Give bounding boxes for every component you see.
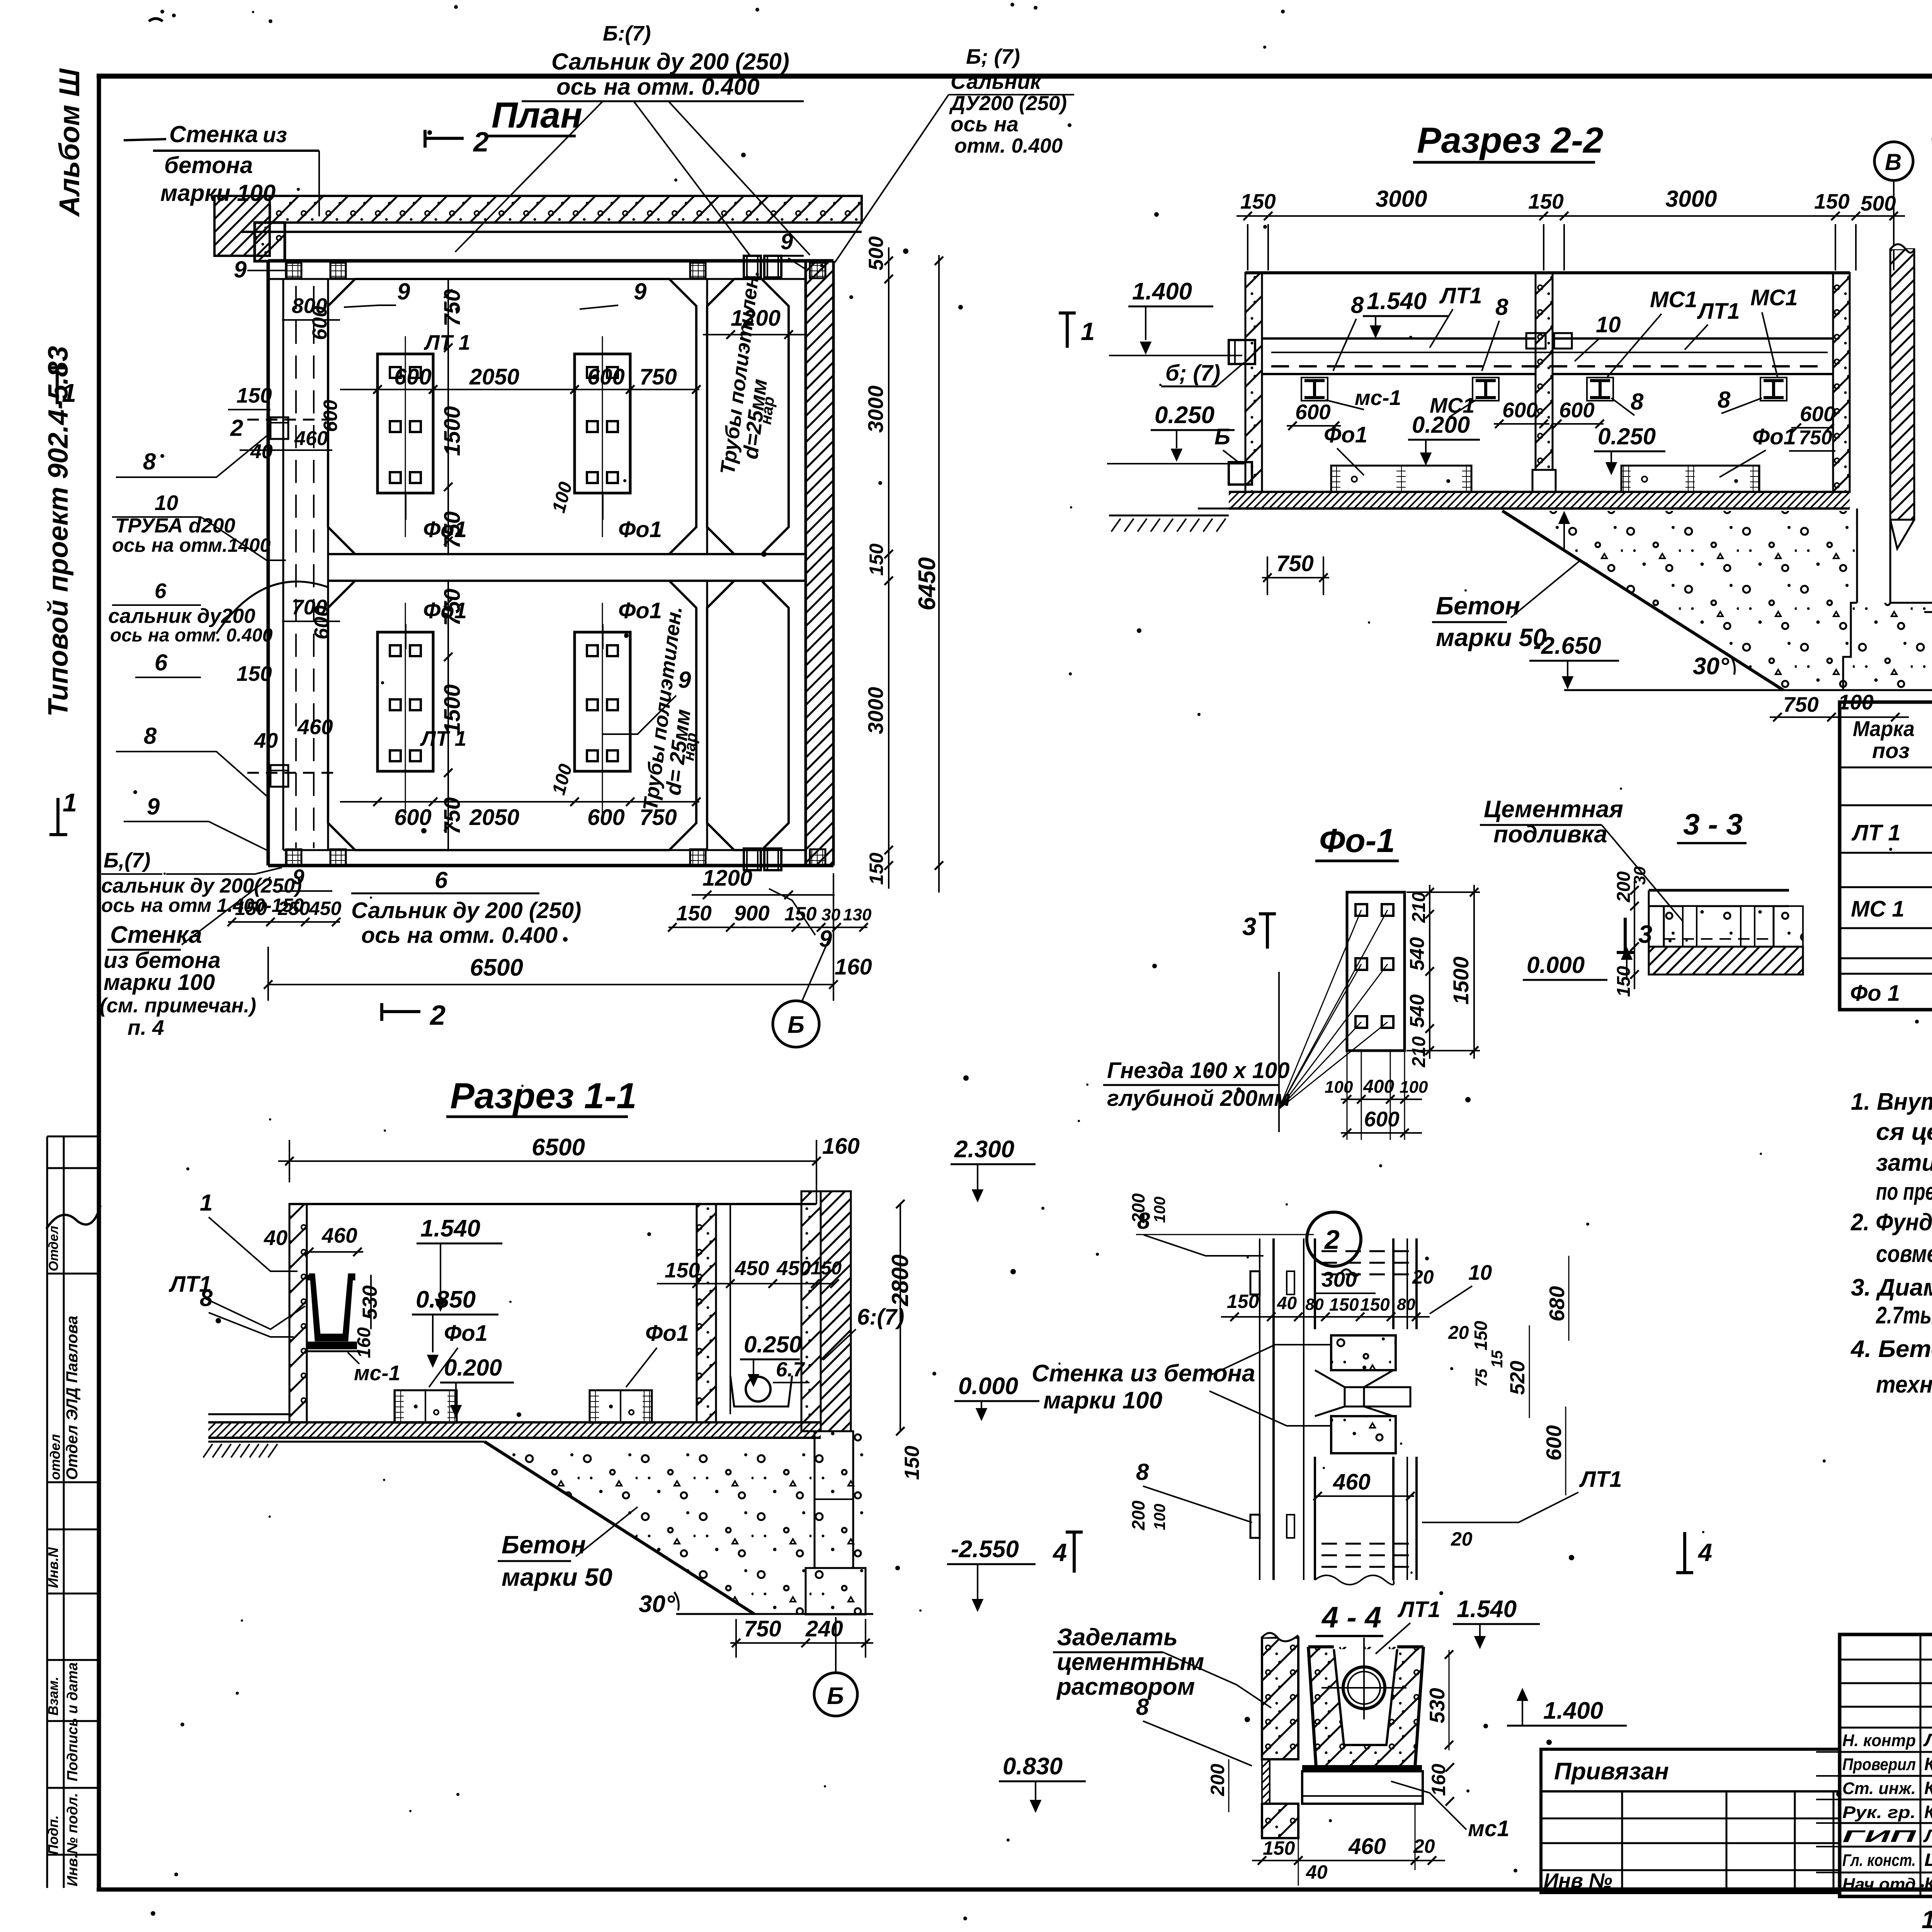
svg-text:марки 100: марки 100	[1043, 1387, 1162, 1414]
svg-text:Стенка: Стенка	[110, 922, 202, 948]
svg-text:460: 460	[1333, 1469, 1371, 1495]
svg-text:марки 50: марки 50	[1436, 623, 1547, 651]
svg-text:6: 6	[155, 650, 168, 675]
svg-text:0.000: 0.000	[1527, 952, 1585, 978]
svg-text:1500: 1500	[440, 406, 465, 456]
svg-text:6:(7): 6:(7)	[857, 1304, 904, 1330]
svg-text:600: 600	[308, 306, 331, 340]
svg-text:Фо1: Фо1	[1752, 424, 1796, 449]
svg-text:раствором: раствором	[1056, 1673, 1195, 1700]
svg-text:-2.650: -2.650	[1533, 633, 1601, 659]
svg-text:нар: нар	[679, 731, 701, 762]
svg-text:0.250: 0.250	[744, 1332, 802, 1357]
svg-text:1: 1	[1081, 317, 1095, 345]
svg-text:400: 400	[1363, 1077, 1394, 1097]
svg-text:200: 200	[1128, 1500, 1148, 1531]
svg-text:100: 100	[1151, 1503, 1168, 1530]
svg-text:Фо-1: Фо-1	[1319, 822, 1395, 859]
svg-text:150: 150	[866, 852, 887, 885]
svg-text:10: 10	[1468, 1260, 1492, 1284]
svg-text:9: 9	[293, 865, 304, 889]
svg-text:Б,(7): Б,(7)	[104, 848, 150, 872]
svg-text:марки 100: марки 100	[104, 970, 215, 995]
svg-text:Подпись и дата: Подпись и дата	[65, 1662, 81, 1781]
svg-text:ось на отм. 0.400: ось на отм. 0.400	[110, 625, 273, 646]
svg-text:Фо1: Фо1	[444, 1321, 488, 1346]
svg-text:Н. контр: Н. контр	[1842, 1731, 1916, 1750]
svg-text:30: 30	[821, 905, 840, 924]
svg-text:глубиной 200мм: глубиной 200мм	[1107, 1086, 1291, 1111]
svg-text:Краснова: Краснова	[1924, 1802, 1932, 1822]
svg-text:8: 8	[1136, 1459, 1149, 1485]
svg-text:сальник ду 200(250): сальник ду 200(250)	[101, 874, 302, 897]
svg-text:Инв.№ подл.: Инв.№ подл.	[65, 1793, 81, 1886]
svg-text:3000: 3000	[864, 687, 888, 734]
svg-text:750: 750	[440, 289, 465, 327]
svg-text:Фо1: Фо1	[645, 1321, 689, 1346]
svg-text:8: 8	[1631, 389, 1644, 415]
svg-text:4 - 4: 4 - 4	[1321, 1601, 1381, 1634]
svg-text:210: 210	[1409, 1036, 1429, 1068]
svg-text:МС1: МС1	[1650, 287, 1697, 312]
svg-text:750: 750	[440, 797, 465, 835]
svg-text:1200: 1200	[702, 866, 752, 891]
svg-text:8: 8	[143, 449, 156, 474]
svg-text:1500: 1500	[1449, 956, 1473, 1005]
svg-text:Фо1: Фо1	[423, 517, 467, 542]
svg-text:600: 600	[1295, 400, 1331, 424]
svg-text:150: 150	[1329, 1294, 1359, 1315]
svg-text:ось на отм. 0.400: ось на отм. 0.400	[361, 923, 558, 948]
svg-text:500: 500	[1861, 191, 1896, 215]
svg-text:Стенка: Стенка	[169, 121, 258, 147]
svg-text:10: 10	[155, 491, 179, 515]
svg-text:30: 30	[1631, 866, 1649, 885]
svg-text:1.540: 1.540	[1367, 288, 1427, 315]
svg-text:ЛТ1: ЛТ1	[168, 1272, 212, 1297]
svg-text:3. Диаметр сальников в ско: 3. Диаметр сальников в скобках дан для п…	[1851, 1274, 1932, 1301]
svg-text:600: 600	[1502, 398, 1538, 422]
svg-text:680: 680	[1545, 1286, 1569, 1321]
svg-text:150: 150	[1614, 966, 1634, 997]
svg-text:500: 500	[865, 236, 888, 270]
svg-text:9: 9	[634, 279, 647, 304]
svg-text:600: 600	[1800, 402, 1835, 426]
svg-text:ось на: ось на	[951, 112, 1019, 136]
svg-text:460: 460	[321, 1223, 357, 1247]
svg-text:мс1: мс1	[1468, 1816, 1509, 1841]
svg-text:Красавин: Красавин	[1924, 1874, 1932, 1894]
svg-text:530: 530	[1425, 1688, 1449, 1723]
svg-text:6500: 6500	[532, 1134, 585, 1161]
svg-text:40: 40	[264, 1226, 288, 1250]
svg-text:МС1: МС1	[1750, 285, 1798, 310]
svg-text:1200: 1200	[731, 306, 781, 331]
svg-text:Сальник: Сальник	[951, 70, 1042, 94]
svg-text:совместно с днищем.: совместно с днищем.	[1876, 1241, 1932, 1267]
svg-text:ось на отм 1.400-150: ось на отм 1.400-150	[101, 895, 304, 916]
svg-text:750: 750	[1276, 551, 1314, 576]
svg-text:1: 1	[62, 379, 76, 408]
svg-text:150: 150	[1360, 1294, 1390, 1315]
svg-text:-2.550: -2.550	[951, 1536, 1019, 1563]
svg-text:750: 750	[1783, 692, 1819, 716]
svg-text:3000: 3000	[1665, 186, 1717, 212]
svg-text:75: 75	[1472, 1368, 1491, 1387]
svg-text:Б: Б	[1214, 424, 1230, 449]
svg-text:40: 40	[1306, 1861, 1328, 1883]
svg-text:Подп.: Подп.	[45, 1815, 61, 1855]
svg-text:150: 150	[1814, 189, 1850, 213]
svg-text:200: 200	[1207, 1764, 1228, 1796]
svg-text:2050: 2050	[469, 805, 519, 830]
svg-text:450: 450	[309, 898, 342, 919]
svg-text:из: из	[263, 122, 287, 147]
svg-text:9: 9	[781, 229, 793, 254]
svg-text:(см. примечан.): (см. примечан.)	[100, 994, 256, 1017]
svg-text:150: 150	[1227, 1291, 1259, 1312]
svg-text:0.250: 0.250	[1155, 402, 1214, 429]
svg-text:Фо1: Фо1	[1324, 422, 1367, 447]
svg-text:10: 10	[1596, 312, 1621, 337]
svg-text:2: 2	[230, 415, 243, 441]
svg-text:150: 150	[1471, 1321, 1491, 1350]
svg-text:ЛТ 1: ЛТ 1	[420, 726, 466, 750]
svg-text:450: 450	[776, 1257, 811, 1280]
svg-text:Сальник ду 200 (250): Сальник ду 200 (250)	[351, 898, 581, 923]
svg-text:Краснова: Краснова	[1924, 1754, 1932, 1774]
svg-text:Марка: Марка	[1853, 716, 1915, 741]
svg-text:Рук. гр.: Рук. гр.	[1842, 1803, 1916, 1822]
svg-text:540: 540	[1406, 994, 1429, 1028]
svg-text:0.200: 0.200	[444, 1355, 502, 1381]
svg-text:20: 20	[1448, 1323, 1469, 1343]
svg-text:2: 2	[473, 127, 489, 158]
svg-text:750: 750	[639, 364, 677, 389]
svg-text:100: 100	[548, 480, 576, 515]
svg-text:поз: поз	[1872, 738, 1910, 763]
svg-text:600: 600	[587, 364, 625, 389]
svg-text:Разрез 2-2: Разрез 2-2	[1417, 120, 1604, 160]
svg-text:6500: 6500	[470, 954, 523, 981]
svg-text:3000: 3000	[864, 385, 888, 433]
svg-text:520: 520	[1506, 1361, 1529, 1395]
svg-text:160: 160	[354, 1327, 374, 1358]
svg-text:600: 600	[1542, 1425, 1566, 1461]
svg-text:600: 600	[1559, 398, 1595, 422]
svg-text:Бетон: Бетон	[1436, 592, 1520, 620]
svg-text:9: 9	[147, 794, 160, 820]
svg-text:ЛТ1: ЛТ1	[1397, 1597, 1440, 1622]
svg-text:мс-1: мс-1	[1355, 386, 1401, 410]
svg-text:3: 3	[1242, 912, 1256, 940]
svg-text:2. Фундаменты под обору: 2. Фундаменты под оборудование Фо 1 бето…	[1850, 1209, 1932, 1236]
svg-text:160: 160	[1428, 1764, 1449, 1796]
svg-text:20: 20	[1451, 1528, 1473, 1550]
svg-text:1.540: 1.540	[1457, 1596, 1517, 1622]
svg-text:8: 8	[1495, 294, 1509, 320]
svg-text:0.250: 0.250	[1598, 423, 1656, 449]
svg-text:1: 1	[63, 788, 77, 817]
svg-text:6: 6	[435, 867, 448, 893]
svg-text:МС 1: МС 1	[1851, 896, 1905, 922]
svg-text:40: 40	[254, 728, 278, 752]
svg-text:Киселева: Киселева	[1924, 1778, 1932, 1798]
svg-text:210: 210	[1409, 892, 1429, 923]
svg-text:0.200: 0.200	[1412, 412, 1470, 438]
svg-text:250: 250	[277, 898, 310, 919]
svg-text:Стенка из бетона: Стенка из бетона	[1032, 1360, 1255, 1387]
svg-text:1.400: 1.400	[1132, 278, 1192, 305]
svg-text:сальник ду200: сальник ду200	[108, 605, 255, 628]
svg-text:ось на отм.1400: ось на отм.1400	[112, 534, 270, 556]
svg-text:150: 150	[236, 383, 272, 407]
svg-text:1: 1	[200, 1190, 213, 1216]
svg-text:Гл. конст.: Гл. конст.	[1842, 1851, 1916, 1870]
svg-text:6: 6	[155, 579, 167, 603]
svg-text:4: 4	[1697, 1538, 1712, 1566]
svg-text:100: 100	[1400, 1078, 1428, 1097]
svg-text:530: 530	[359, 1286, 381, 1320]
svg-text:750: 750	[744, 1616, 781, 1641]
svg-text:ЛТ1: ЛТ1	[1697, 299, 1740, 324]
svg-text:150: 150	[1240, 189, 1276, 213]
svg-text:Шапиро: Шапиро	[1924, 1850, 1932, 1870]
svg-text:затиркой. Наружные стены: затиркой. Наружные стены окрасить влагос…	[1876, 1150, 1932, 1176]
svg-text:6.7: 6.7	[776, 1358, 805, 1381]
svg-text:100: 100	[1325, 1078, 1353, 1097]
svg-text:2.7тыс. м: 2.7тыс. м	[1876, 1302, 1932, 1329]
svg-text:450: 450	[735, 1257, 769, 1280]
svg-text:1. Внутренняя (к воде) по: 1. Внутренняя (к воде) поверхность резер…	[1851, 1088, 1932, 1115]
svg-text:Фо1: Фо1	[618, 598, 662, 623]
svg-text:Б: Б	[827, 1683, 844, 1709]
svg-text:240: 240	[805, 1616, 843, 1641]
svg-text:ЛТ1: ЛТ1	[1439, 283, 1482, 308]
svg-text:2: 2	[1324, 1225, 1340, 1255]
svg-text:ГИП: ГИП	[1842, 1827, 1917, 1846]
svg-text:п. 4: п. 4	[128, 1015, 164, 1039]
svg-text:40: 40	[250, 440, 273, 463]
svg-text:150: 150	[676, 901, 712, 925]
svg-text:150: 150	[901, 1446, 923, 1480]
svg-text:Б: Б	[787, 1012, 804, 1038]
svg-text:8: 8	[1351, 292, 1364, 318]
svg-text:Заделать: Заделать	[1057, 1624, 1178, 1651]
svg-text:150: 150	[1528, 189, 1564, 213]
svg-text:750: 750	[1799, 427, 1832, 449]
svg-text:30°: 30°	[1693, 653, 1730, 680]
svg-text:Б; (7): Б; (7)	[966, 44, 1020, 68]
svg-text:3 - 3: 3 - 3	[1683, 808, 1743, 841]
svg-text:160: 160	[835, 954, 872, 980]
svg-text:200: 200	[1128, 1193, 1148, 1223]
svg-text:бетона: бетона	[164, 152, 253, 178]
svg-text:460: 460	[294, 427, 328, 450]
svg-text:300: 300	[1321, 1267, 1357, 1291]
svg-text:900: 900	[734, 901, 770, 925]
svg-text:Бетон: Бетон	[502, 1531, 586, 1559]
svg-text:160: 160	[822, 1134, 860, 1159]
svg-text:Взам.: Взам.	[45, 1677, 61, 1716]
svg-text:ся цементным раствором 2: ся цементным раствором 20мм за 2раза с п…	[1876, 1119, 1932, 1145]
svg-text:8: 8	[1718, 387, 1731, 413]
svg-text:2050: 2050	[469, 364, 519, 389]
svg-text:2: 2	[429, 1000, 446, 1031]
svg-text:нар: нар	[757, 395, 778, 425]
svg-text:150: 150	[784, 903, 817, 925]
svg-text:6450: 6450	[914, 557, 940, 611]
svg-text:100: 100	[548, 762, 576, 797]
svg-text:0.850: 0.850	[416, 1286, 476, 1313]
svg-text:Цементная: Цементная	[1484, 796, 1623, 823]
svg-text:Инв.N: Инв.N	[45, 1547, 61, 1588]
svg-text:150: 150	[866, 543, 887, 576]
svg-text:150: 150	[235, 898, 267, 919]
svg-text:Гнезда 100 х 100: Гнезда 100 х 100	[1107, 1058, 1290, 1083]
svg-text:8: 8	[144, 723, 157, 749]
svg-text:б; (7): б; (7)	[1165, 361, 1220, 386]
svg-text:20: 20	[1413, 1835, 1435, 1857]
svg-text:9: 9	[234, 257, 247, 282]
svg-text:Альбом Ш: Альбом Ш	[53, 68, 85, 217]
svg-text:2.300: 2.300	[954, 1136, 1014, 1163]
svg-text:Фо1: Фо1	[423, 598, 467, 623]
svg-text:Инв №: Инв №	[1544, 1869, 1612, 1892]
svg-text:Сальник ду 200 (250): Сальник ду 200 (250)	[551, 49, 789, 75]
svg-text:540: 540	[1406, 937, 1429, 971]
svg-text:30°: 30°	[639, 1591, 675, 1617]
svg-text:мс-1: мс-1	[354, 1361, 400, 1385]
svg-text:150: 150	[236, 662, 272, 685]
svg-text:3: 3	[1638, 920, 1652, 948]
svg-text:Лоуцкер: Лоуцкер	[1923, 1826, 1932, 1846]
svg-text:0.000: 0.000	[958, 1373, 1018, 1400]
svg-text:Лоуцкер: Лоуцкер	[1923, 1730, 1932, 1750]
svg-text:ЛТ 1: ЛТ 1	[1851, 820, 1901, 845]
svg-text:Проверил: Проверил	[1842, 1755, 1916, 1774]
svg-text:марки 50: марки 50	[502, 1563, 612, 1591]
svg-text:0.830: 0.830	[1003, 1753, 1063, 1780]
svg-text:отм. 0.400: отм. 0.400	[954, 134, 1063, 157]
svg-text:1.400: 1.400	[1543, 1697, 1603, 1724]
svg-text:600: 600	[1364, 1107, 1400, 1131]
svg-text:Фо 1: Фо 1	[1850, 981, 1900, 1006]
svg-text:600: 600	[587, 805, 625, 830]
svg-text:Б:(7): Б:(7)	[603, 21, 651, 45]
svg-text:3000: 3000	[1376, 186, 1427, 212]
svg-text:ЛТ1: ЛТ1	[1579, 1467, 1622, 1492]
svg-text:80: 80	[1397, 1295, 1415, 1314]
svg-text:40: 40	[1277, 1293, 1297, 1313]
svg-text:Отдел ЭЛД Павлова: Отдел ЭЛД Павлова	[63, 1316, 81, 1480]
svg-text:Разрез 1-1: Разрез 1-1	[450, 1075, 637, 1116]
svg-text:ось на отм. 0.400: ось на отм. 0.400	[556, 74, 760, 100]
svg-text:460: 460	[297, 715, 333, 739]
svg-text:В: В	[1885, 149, 1901, 175]
svg-text:100: 100	[1151, 1196, 1168, 1223]
svg-text:130: 130	[843, 905, 872, 924]
svg-text:8: 8	[1136, 1694, 1149, 1720]
svg-text:Привязан: Привязан	[1554, 1758, 1669, 1785]
svg-text:150: 150	[811, 1258, 842, 1279]
svg-text:из бетона: из бетона	[104, 948, 221, 973]
svg-text:4. Бетонную стенку в лот: 4. Бетонную стенку в лотке ЛТ1 выполнить…	[1850, 1336, 1932, 1362]
svg-text:Ст. инж.: Ст. инж.	[1842, 1779, 1916, 1798]
svg-text:по предварительно оштукатур: по предварительно оштукатуренной поверхн…	[1876, 1179, 1932, 1205]
svg-text:9: 9	[397, 279, 410, 304]
svg-text:600: 600	[394, 364, 432, 389]
svg-text:1.540: 1.540	[420, 1215, 480, 1242]
svg-text:150: 150	[1263, 1837, 1295, 1859]
svg-text:Фо1: Фо1	[618, 517, 662, 542]
svg-text:15: 15	[1488, 1350, 1506, 1368]
svg-text:600: 600	[310, 605, 333, 639]
svg-text:отдел: отдел	[47, 1434, 63, 1480]
svg-text:80: 80	[1305, 1295, 1324, 1314]
svg-text:4: 4	[1052, 1538, 1067, 1566]
svg-text:600: 600	[394, 805, 432, 830]
svg-text:9: 9	[678, 667, 691, 693]
svg-text:460: 460	[1348, 1834, 1386, 1859]
svg-text:150: 150	[665, 1258, 700, 1282]
svg-text:20: 20	[1412, 1266, 1434, 1288]
svg-text:ТРУБА d200: ТРУБА d200	[115, 514, 235, 537]
svg-text:Отдел: Отдел	[46, 1226, 61, 1271]
svg-text:Нач.отд: Нач.отд	[1842, 1875, 1916, 1894]
svg-text:ЛТ 1: ЛТ 1	[423, 330, 470, 354]
svg-text:технологического трубопровод: технологического трубопровода.	[1876, 1371, 1932, 1398]
svg-text:19106 - 03 12: 19106 - 03 12	[1922, 1905, 1932, 1932]
